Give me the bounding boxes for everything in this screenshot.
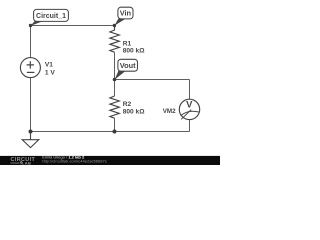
svg-text:http://circuitlab.com/c44e2se5: http://circuitlab.com/c44e2se56687s (42, 159, 107, 164)
resistor R2 (110, 96, 119, 118)
node flag Vin tail (114, 18, 125, 26)
node flag Vout tail (115, 71, 126, 80)
node flag Vin (118, 7, 133, 19)
svg-text:VM2: VM2 (163, 108, 176, 115)
resistor R1 (110, 26, 119, 53)
wire bottom rail (31, 131, 190, 133)
wire top: node A to Vin node (31, 25, 115, 27)
junction dot node A (29, 24, 32, 27)
svg-text:LAB: LAB (22, 160, 31, 165)
wire left upper: corner to V1 top (30, 26, 32, 58)
svg-text:Circuit_1: Circuit_1 (36, 13, 66, 20)
voltmeter VM2 (179, 99, 199, 119)
svg-text:V: V (186, 99, 193, 110)
svg-text:1 V: 1 V (45, 69, 55, 76)
wire left lower: V1 bottom to bottom rail (30, 78, 32, 132)
wire R2 bottom lead to bottom rail (114, 118, 116, 131)
node flag Vout (118, 59, 138, 71)
node flag Circuit_1 tail (31, 21, 43, 26)
svg-text:Vout: Vout (120, 61, 136, 70)
ground (22, 132, 39, 148)
junction dot Vin node (113, 24, 116, 27)
junction dot ground corner (29, 130, 33, 134)
wire Vout horizontal (115, 79, 190, 81)
footer bar (0, 156, 220, 165)
svg-text:800 kΩ: 800 kΩ (123, 108, 146, 115)
svg-text:R1: R1 (123, 40, 132, 47)
voltage source V1 (20, 58, 40, 78)
junction dot Vout node (113, 78, 117, 82)
wire VM2 bottom lead (189, 120, 191, 132)
svg-text:R2: R2 (123, 101, 132, 108)
svg-text:Vin: Vin (120, 9, 132, 18)
junction dot R2 bottom (113, 130, 117, 134)
svg-text:V1: V1 (45, 62, 53, 69)
node flag Circuit_1 (34, 9, 69, 21)
wire R1 bottom to Vout node to R2 top (114, 52, 116, 96)
svg-text:800 kΩ: 800 kΩ (123, 47, 146, 54)
wire VM2 top lead (189, 80, 191, 100)
